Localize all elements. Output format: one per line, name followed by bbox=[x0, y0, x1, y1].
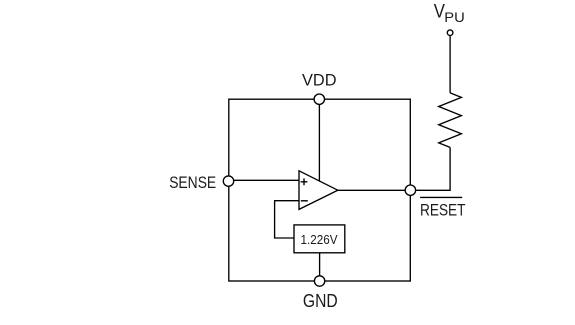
svg-text:GND: GND bbox=[303, 291, 338, 311]
svg-text:1.226V: 1.226V bbox=[301, 232, 338, 247]
terminal GND bbox=[314, 276, 324, 286]
wire VDD stub to comparator top bbox=[318, 99, 320, 181]
wire SENSE to comparator + input bbox=[229, 179, 300, 181]
comparator U1 triangle bbox=[299, 171, 338, 210]
svg-text:RESET: RESET bbox=[420, 201, 466, 220]
terminal SENSE bbox=[223, 176, 233, 186]
resistor R1 pull-up zigzag bbox=[439, 93, 462, 147]
wire comparator - input to reference box bbox=[275, 201, 300, 238]
terminal VDD bbox=[314, 94, 324, 104]
svg-text:SENSE: SENSE bbox=[169, 173, 216, 192]
IC body outline bbox=[229, 99, 410, 281]
reference voltage box 1.226V bbox=[294, 225, 345, 253]
RESET overline bbox=[420, 196, 462, 198]
terminal RESET bbox=[405, 185, 415, 195]
comparator - input mark bbox=[301, 200, 308, 202]
comparator + input mark bbox=[301, 178, 308, 185]
wire reference box to GND rail bbox=[319, 253, 321, 281]
svg-text:PU: PU bbox=[444, 10, 465, 25]
wire V_PU terminal to resistor top bbox=[449, 36, 451, 93]
terminal V_PU bbox=[447, 30, 453, 36]
svg-text:VDD: VDD bbox=[302, 71, 337, 90]
wire RESET node to pull-up resistor bbox=[410, 147, 450, 190]
wire comparator output to RESET terminal bbox=[336, 189, 410, 191]
